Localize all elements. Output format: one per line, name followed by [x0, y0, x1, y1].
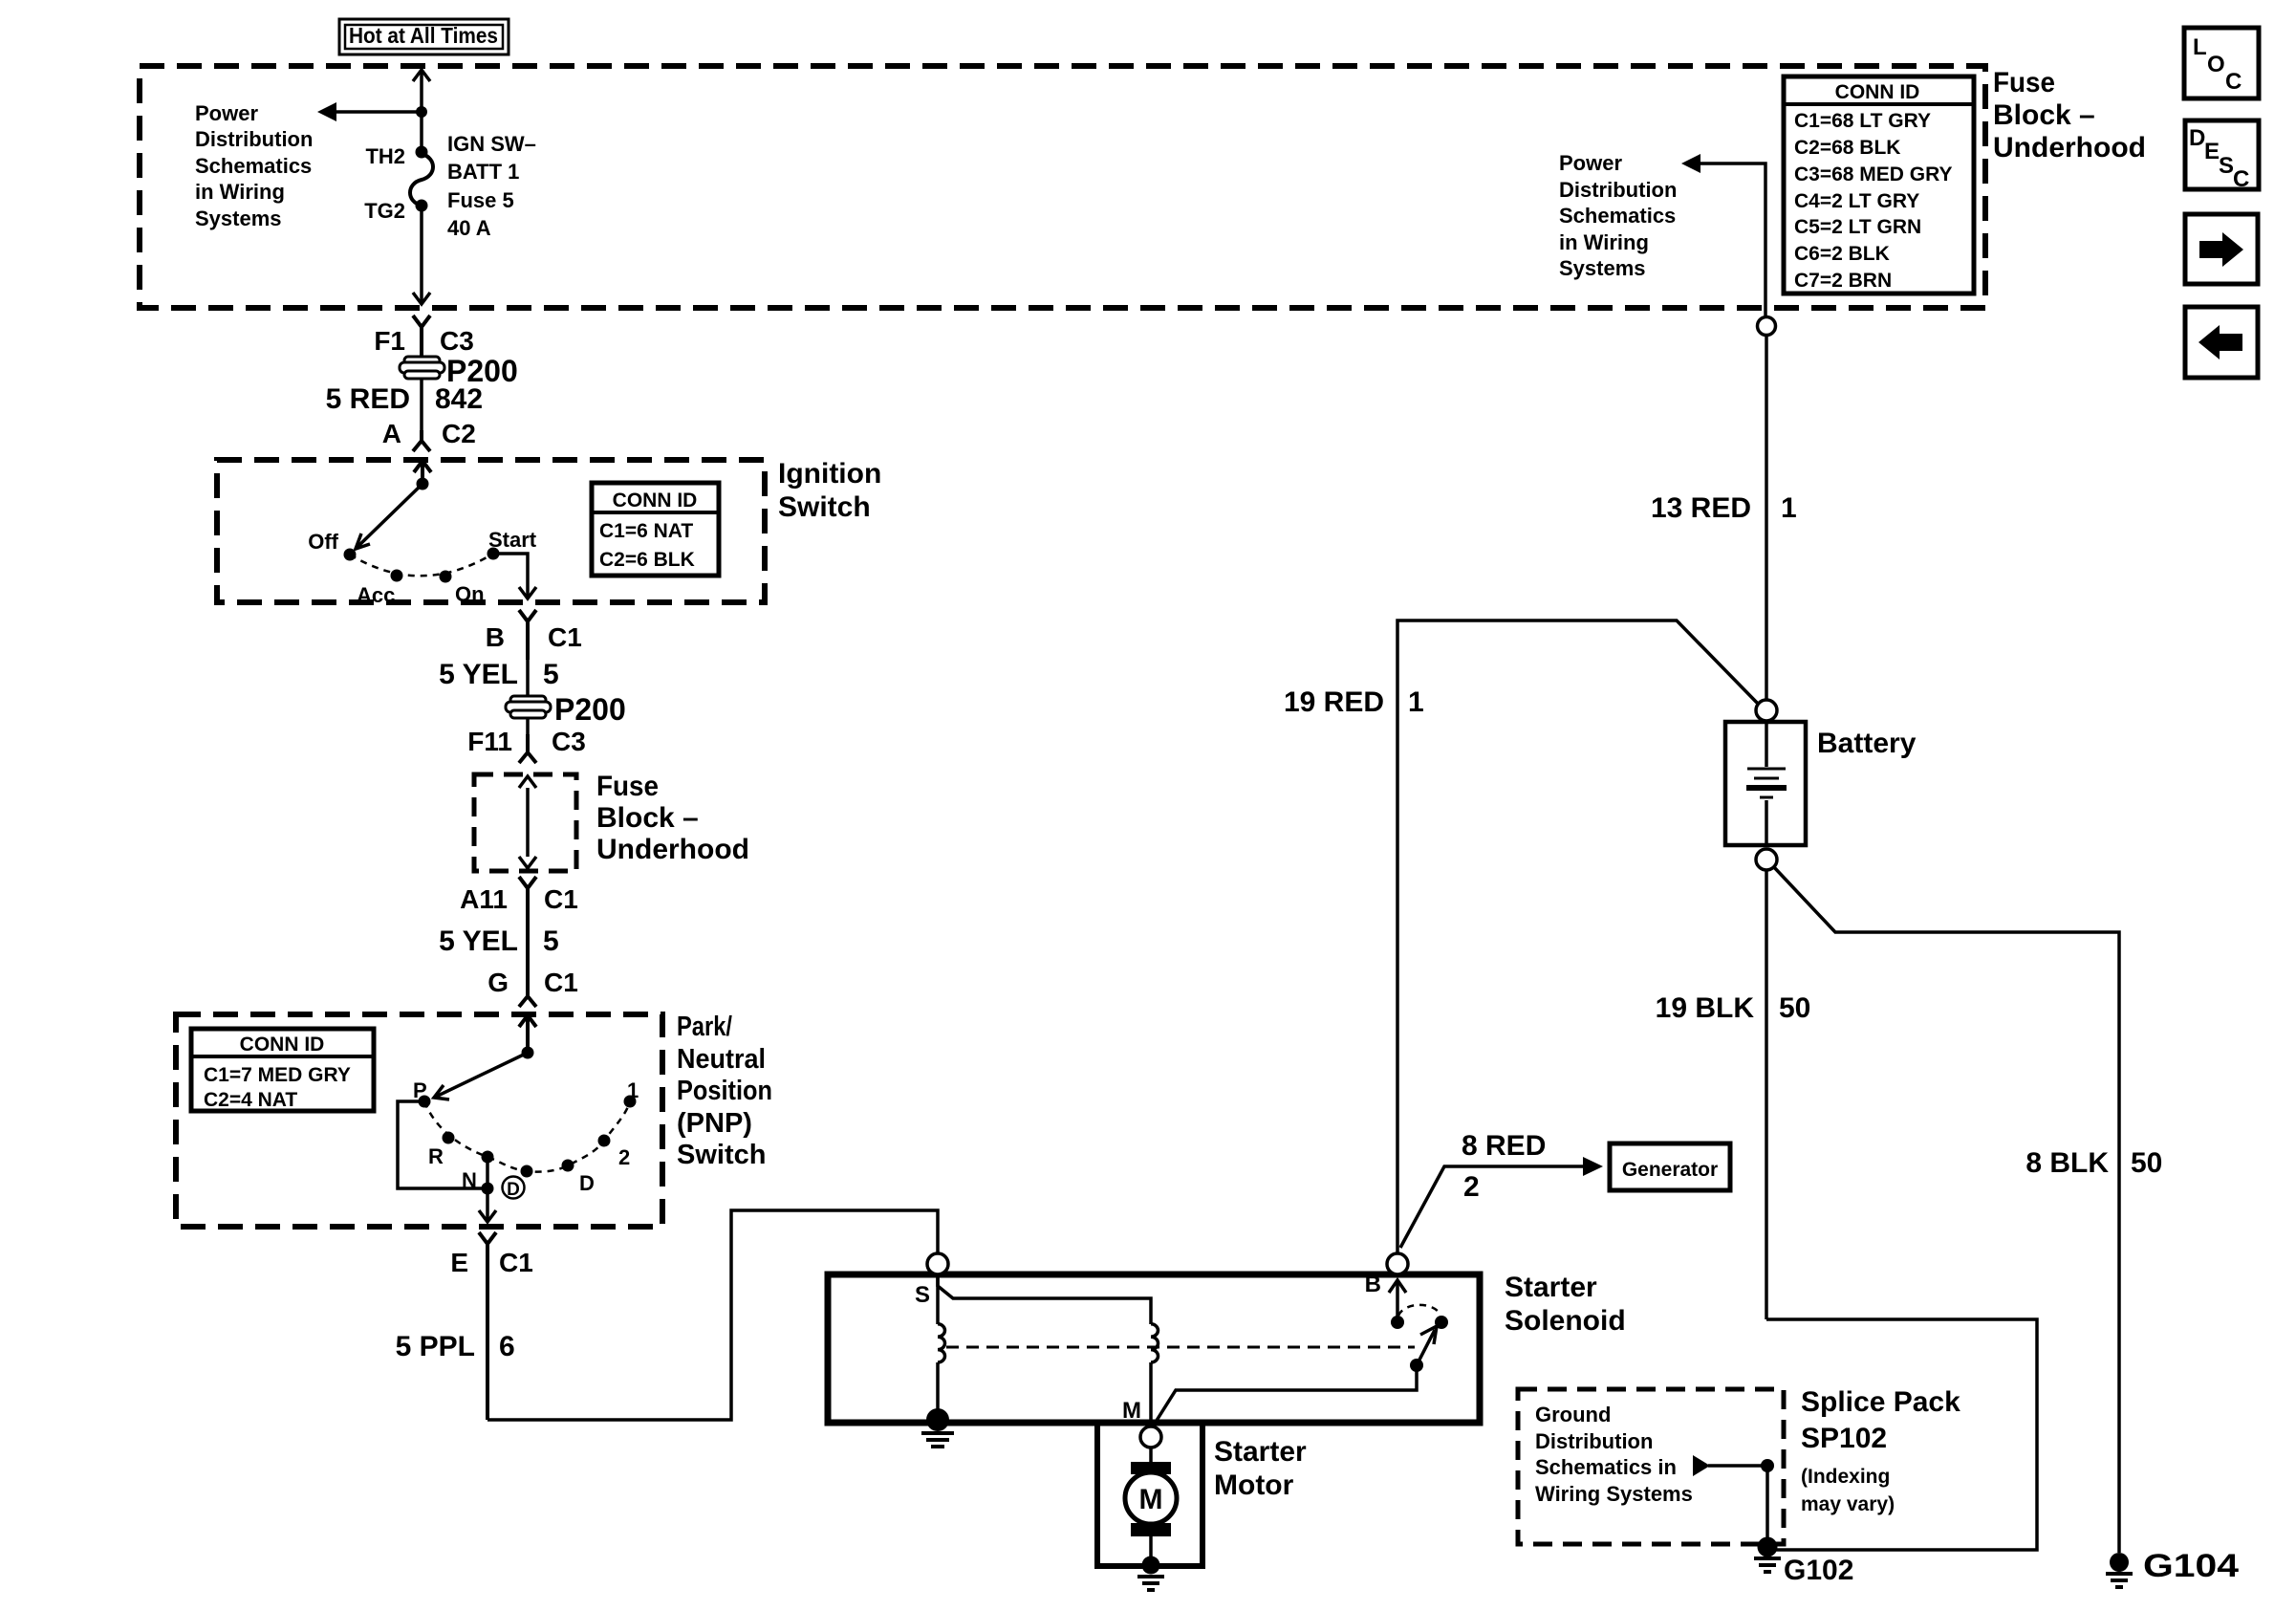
pull-in coil: [1151, 1324, 1159, 1429]
ignition rotor arm to Off: [356, 484, 422, 549]
svg-text:TG2: TG2: [364, 199, 405, 223]
svg-text:13 RED: 13 RED: [1651, 492, 1751, 524]
svg-text:Park/: Park/: [677, 1012, 732, 1042]
svg-text:R: R: [428, 1144, 444, 1168]
text: Fuse Block - Underhood (top right): [1993, 67, 2146, 163]
generator box: [1610, 1143, 1730, 1190]
svg-text:IGN SW–: IGN SW–: [447, 132, 536, 156]
svg-text:BATT 1: BATT 1: [447, 160, 519, 184]
solenoid contact arm with arrow: [1417, 1326, 1437, 1365]
svg-text:in Wiring: in Wiring: [195, 180, 285, 204]
wire: 8 RED branch to generator: [1400, 1157, 1603, 1248]
svg-text:C1: C1: [544, 968, 578, 997]
svg-text:Start: Start: [488, 528, 537, 552]
wire: hot feed vertical into fuse block: [413, 70, 430, 152]
CONN ID table (ignition switch): [592, 483, 719, 576]
svg-text:C1: C1: [499, 1248, 533, 1277]
wire: 8 BLK battery to G104: [1773, 866, 2119, 1553]
text: IGN SW- BATT 1 Fuse 5 40 A: [447, 132, 536, 240]
svg-text:8 RED: 8 RED: [1462, 1130, 1546, 1162]
starter motor box: [1097, 1423, 1202, 1566]
svg-text:Schematics: Schematics: [195, 154, 312, 178]
svg-text:Ignition: Ignition: [778, 458, 881, 490]
text: Fuse Block - Underhood (middle): [596, 771, 749, 865]
wire: down to fuse block: [526, 719, 530, 734]
svg-text:Systems: Systems: [1559, 256, 1646, 280]
svg-text:Starter: Starter: [1505, 1272, 1597, 1303]
svg-text:C3: C3: [440, 326, 474, 356]
wire: fuse output down to box edge: [413, 206, 430, 304]
mechanical link dashed line: [946, 1346, 1415, 1349]
svg-text:C4=2 LT GRY: C4=2 LT GRY: [1794, 190, 1919, 212]
svg-text:C3=68 MED GRY: C3=68 MED GRY: [1794, 163, 1953, 185]
connector C1 fork below fuse block: [519, 877, 536, 966]
svg-text:C7=2 BRN: C7=2 BRN: [1794, 270, 1892, 292]
icon box LOC: [2184, 28, 2259, 98]
svg-text:Distribution: Distribution: [195, 127, 313, 151]
dashed arc of ignition positions: [350, 554, 493, 576]
wire: 13 RED fuse block to battery: [1765, 335, 1768, 700]
hold-in coil: [938, 1274, 944, 1413]
svg-text:C5=2 LT GRN: C5=2 LT GRN: [1794, 216, 1921, 238]
svg-text:C1=68 LT GRY: C1=68 LT GRY: [1794, 110, 1931, 132]
node: PNP rotor pivot dot: [522, 1047, 534, 1059]
node: S terminal circle: [927, 1253, 948, 1274]
svg-text:F11: F11: [467, 727, 512, 756]
text: Park/ Neutral Position (PNP) Switch: [677, 1012, 772, 1170]
svg-text:S: S: [915, 1282, 930, 1308]
svg-text:G: G: [487, 968, 509, 997]
svg-text:Ground: Ground: [1535, 1403, 1611, 1426]
text: Starter Motor: [1214, 1436, 1307, 1501]
svg-text:G104: G104: [2143, 1548, 2239, 1584]
connector E/C1 fork below PNP switch: [479, 1232, 496, 1420]
svg-text:D: D: [507, 1180, 520, 1200]
connector arrow entering ignition switch: [414, 461, 431, 478]
svg-text:Splice Pack: Splice Pack: [1801, 1386, 1960, 1418]
svg-text:C3: C3: [552, 727, 586, 756]
svg-text:Fuse: Fuse: [596, 771, 659, 802]
svg-text:Schematics: Schematics: [1559, 204, 1676, 228]
text: Power Distribution Schematics in Wiring Systems (right): [1559, 151, 1677, 280]
node: right fixed contact dot: [1435, 1316, 1448, 1329]
ground G104: [2106, 1574, 2133, 1587]
node: N junction dot: [482, 1183, 494, 1195]
wire: N contact down: [486, 1157, 489, 1188]
svg-text:M: M: [1139, 1484, 1163, 1515]
svg-text:Acc: Acc: [357, 583, 395, 607]
svg-text:5 YEL: 5 YEL: [439, 925, 518, 957]
svg-text:C: C: [2225, 69, 2242, 95]
icon box arrow right: [2185, 214, 2258, 284]
battery box: [1725, 722, 1806, 845]
svg-text:A11: A11: [460, 884, 508, 914]
node: motor ground dot: [1142, 1557, 1160, 1575]
starter solenoid box: [828, 1274, 1480, 1423]
svg-text:A: A: [382, 419, 401, 448]
node: G104 ground dot: [2110, 1553, 2129, 1572]
wire: Start contact to C1 output: [499, 554, 536, 599]
node: On contact dot: [440, 571, 452, 583]
text: Starter Solenoid: [1505, 1272, 1626, 1337]
svg-text:in Wiring: in Wiring: [1559, 230, 1649, 254]
svg-text:50: 50: [1779, 992, 1810, 1024]
svg-text:O: O: [2207, 52, 2225, 77]
icon box arrow left: [2185, 307, 2258, 378]
connector arrow entering PNP switch: [519, 1015, 536, 1047]
motor M element: [1125, 1462, 1177, 1536]
svg-text:C1: C1: [548, 622, 582, 652]
fuse block underhood (top) dashed box: [140, 66, 1985, 308]
svg-text:1: 1: [1408, 686, 1424, 718]
svg-text:Switch: Switch: [778, 491, 871, 523]
wire: branch to power distribution (right arrow): [1681, 154, 1765, 316]
svg-text:Power: Power: [1559, 151, 1622, 175]
svg-text:C2: C2: [442, 419, 476, 448]
node: junction circle below fuse block: [1758, 317, 1776, 336]
node: TH2 dot: [416, 146, 428, 159]
svg-text:P200: P200: [554, 692, 626, 727]
wire: motor to ground: [1149, 1536, 1153, 1560]
svg-text:Distribution: Distribution: [1535, 1429, 1653, 1453]
text: Ground Distribution Schematics in Wiring Systems: [1535, 1403, 1693, 1506]
svg-text:CONN ID: CONN ID: [1835, 81, 1920, 103]
CONN ID table (PNP switch): [191, 1029, 374, 1111]
svg-text:C1=6 NAT: C1=6 NAT: [599, 520, 693, 542]
svg-text:Battery: Battery: [1817, 728, 1917, 759]
svg-text:Fuse 5: Fuse 5: [447, 188, 514, 212]
battery cell element: [1746, 722, 1787, 845]
svg-text:40 A: 40 A: [447, 216, 491, 240]
svg-text:CONN ID: CONN ID: [240, 1034, 325, 1056]
svg-text:Off: Off: [308, 530, 338, 554]
svg-text:Generator: Generator: [1622, 1159, 1718, 1181]
svg-text:M: M: [1122, 1398, 1141, 1424]
svg-text:(Indexing: (Indexing: [1801, 1466, 1890, 1488]
node: hold-in coil ground junction dot: [926, 1408, 949, 1431]
svg-text:S: S: [2219, 153, 2234, 179]
svg-text:E: E: [2204, 139, 2220, 164]
svg-text:Solenoid: Solenoid: [1505, 1305, 1626, 1337]
svg-text:L: L: [2193, 34, 2207, 60]
wire: M terminal to motor: [1149, 1448, 1153, 1463]
svg-text:50: 50: [2131, 1147, 2162, 1179]
svg-text:5 YEL: 5 YEL: [439, 659, 518, 690]
svg-text:Fuse: Fuse: [1993, 67, 2055, 98]
node: contact arm pivot dot: [1410, 1359, 1423, 1372]
PNP switch dashed box: [176, 1014, 662, 1227]
svg-text:8 BLK: 8 BLK: [2025, 1147, 2109, 1179]
svg-text:1: 1: [627, 1078, 639, 1102]
svg-text:C1=7 MED GRY: C1=7 MED GRY: [204, 1064, 351, 1086]
connector C3 fork at fuse block boundary: [413, 316, 430, 359]
svg-text:C: C: [2233, 166, 2249, 192]
node: left fixed contact dot: [1391, 1316, 1404, 1329]
text: Splice Pack SP102 (Indexing may vary): [1801, 1386, 1960, 1515]
node: D contact dot: [562, 1160, 574, 1172]
svg-text:6: 6: [499, 1331, 515, 1362]
svg-text:Underhood: Underhood: [596, 834, 749, 865]
svg-text:Position: Position: [677, 1076, 772, 1106]
node: junction dot on hot feed: [416, 106, 427, 118]
text: Ignition Switch: [778, 458, 881, 523]
svg-text:Underhood: Underhood: [1993, 132, 2146, 163]
dashed arc of PNP positions: [424, 1101, 630, 1172]
svg-text:may vary): may vary): [1801, 1493, 1895, 1515]
ground (solenoid): [921, 1433, 954, 1447]
wire: 19 RED battery to solenoid B: [1397, 620, 1760, 1253]
svg-text:2: 2: [1463, 1171, 1480, 1203]
svg-text:5: 5: [543, 925, 559, 957]
svg-text:G102: G102: [1784, 1555, 1853, 1586]
svg-text:1: 1: [1781, 492, 1797, 524]
node: splice junction dot: [1761, 1459, 1774, 1472]
svg-text:(PNP): (PNP): [677, 1108, 752, 1139]
connector C2 fork above ignition switch: [413, 430, 430, 451]
node: B terminal circle: [1387, 1253, 1408, 1274]
svg-text:Neutral: Neutral: [677, 1044, 766, 1075]
svg-text:D: D: [579, 1171, 595, 1195]
node: battery positive circle: [1756, 700, 1777, 721]
svg-text:Starter: Starter: [1214, 1436, 1307, 1468]
node: 1 contact dot: [624, 1096, 637, 1108]
svg-text:Power: Power: [195, 101, 258, 125]
connector C1 fork below ignition switch: [519, 610, 536, 660]
node: TG2 dot: [416, 200, 428, 212]
connector C3 fork above fuse block: [519, 734, 536, 763]
svg-text:C6=2 BLK: C6=2 BLK: [1794, 243, 1890, 265]
svg-text:Switch: Switch: [677, 1140, 766, 1170]
node: Start contact dot: [487, 548, 500, 560]
svg-text:Block –: Block –: [1993, 99, 2095, 131]
svg-text:B: B: [486, 622, 505, 652]
svg-text:842: 842: [435, 383, 483, 415]
svg-text:C2=4 NAT: C2=4 NAT: [204, 1089, 297, 1111]
node: P contact dot: [419, 1096, 431, 1108]
wire: down to ignition switch: [420, 380, 423, 430]
svg-text:TH2: TH2: [365, 144, 405, 168]
wire: branch to power distribution (left arrow): [317, 102, 422, 121]
connector G/C1 fork above PNP switch: [519, 966, 536, 1007]
fuse F5 squiggle element: [410, 154, 433, 206]
wire: down to P200: [526, 660, 530, 698]
node: battery negative circle: [1756, 849, 1777, 870]
node: M terminal circle: [1140, 1426, 1161, 1448]
label box: Hot at All Times: [339, 19, 509, 54]
wire: P-N jumper: [398, 1101, 487, 1188]
svg-text:CONN ID: CONN ID: [613, 490, 698, 512]
svg-text:Hot at All Times: Hot at All Times: [349, 23, 498, 48]
text: Power Distribution Schematics in Wiring Systems (left): [195, 101, 313, 230]
wire: N output with arrow: [479, 1188, 496, 1222]
svg-text:On: On: [455, 582, 485, 606]
dashed contact arc: [1398, 1305, 1440, 1316]
ground G102: [1754, 1558, 1781, 1572]
svg-text:SP102: SP102: [1801, 1423, 1887, 1454]
PNP rotor arm to P: [434, 1053, 528, 1099]
svg-text:Schematics in: Schematics in: [1535, 1455, 1677, 1479]
CONN ID table (fuse block underhood): [1784, 76, 1974, 294]
svg-text:5 RED: 5 RED: [326, 383, 410, 415]
svg-text:F1: F1: [374, 326, 405, 356]
node: ignition rotor pivot dot: [417, 478, 429, 490]
ignition switch dashed box: [217, 460, 765, 602]
wire: splice pack link with arrow: [1693, 1455, 1767, 1539]
svg-text:5: 5: [543, 659, 559, 690]
node: D(circled) contact dot: [521, 1165, 533, 1178]
svg-text:Systems: Systems: [195, 207, 282, 230]
svg-text:P: P: [413, 1078, 427, 1102]
svg-text:Motor: Motor: [1214, 1469, 1294, 1501]
wire: 19 BLK loop to G102: [1766, 1319, 2037, 1550]
svg-text:C1: C1: [544, 884, 578, 914]
svg-text:C2=68 BLK: C2=68 BLK: [1794, 137, 1900, 159]
svg-text:19 BLK: 19 BLK: [1656, 992, 1755, 1024]
wire: run to starter solenoid S terminal: [487, 1210, 938, 1420]
svg-text:D: D: [2189, 125, 2205, 151]
wire: B terminal into contact with up arrow: [1389, 1280, 1406, 1317]
svg-text:Block –: Block –: [596, 802, 699, 834]
node: G102 ground dot: [1758, 1537, 1778, 1557]
node: R contact dot: [443, 1132, 455, 1144]
svg-text:Distribution: Distribution: [1559, 178, 1677, 202]
svg-text:C2=6 BLK: C2=6 BLK: [599, 549, 695, 571]
svg-text:Wiring Systems: Wiring Systems: [1535, 1482, 1693, 1506]
fuse block underhood (small) dashed box: [474, 774, 576, 871]
ground (starter motor): [1137, 1577, 1164, 1590]
icon box DESC: [2185, 120, 2259, 192]
grommet P200 (second): [506, 696, 551, 718]
node: 2 contact dot: [598, 1135, 611, 1147]
svg-text:E: E: [450, 1248, 468, 1277]
svg-text:5 PPL: 5 PPL: [396, 1331, 475, 1362]
svg-text:19 RED: 19 RED: [1284, 686, 1384, 718]
node: N contact dot: [482, 1151, 494, 1164]
grommet P200: [400, 357, 444, 379]
svg-text:2: 2: [618, 1145, 630, 1169]
wire: S to pull-in coil feed: [938, 1274, 1151, 1324]
wire: battery negative down 19 BLK: [1765, 870, 1768, 1319]
wire through fuse block with arrows: [519, 776, 536, 868]
node: Acc contact dot: [391, 570, 403, 582]
wire: arm to M terminal: [1153, 1365, 1417, 1426]
node: Off contact dot: [344, 549, 357, 561]
svg-text:B: B: [1365, 1272, 1381, 1297]
ground distribution dashed box: [1518, 1389, 1784, 1544]
circled D symbol: [503, 1177, 525, 1201]
